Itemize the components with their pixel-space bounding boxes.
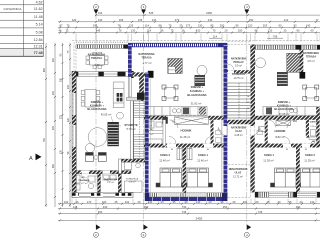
svg-text:KUHINJA +: KUHINJA + — [190, 89, 205, 93]
svg-text:100: 100 — [102, 200, 107, 204]
svg-text:4.62: 4.62 — [36, 0, 43, 4]
svg-text:HODNIK: HODNIK — [274, 129, 285, 133]
svg-text:25: 25 — [284, 29, 287, 33]
svg-text:DNEVNI +: DNEVNI + — [191, 85, 204, 89]
svg-text:20: 20 — [256, 200, 259, 204]
svg-text:77: 77 — [316, 18, 319, 22]
svg-text:250: 250 — [238, 29, 243, 33]
svg-text:250: 250 — [52, 90, 55, 95]
svg-text:4.5 m²: 4.5 m² — [307, 59, 315, 63]
svg-text:27.95 m²: 27.95 m² — [279, 112, 290, 116]
svg-text:GOVAONICA: GOVAONICA — [4, 7, 22, 11]
svg-text:12.40 m²: 12.40 m² — [197, 159, 208, 163]
svg-text:TERASA: TERASA — [141, 57, 151, 60]
svg-text:KUPAONICA: KUPAONICA — [126, 178, 139, 181]
svg-text:96: 96 — [255, 29, 258, 33]
svg-text:80: 80 — [305, 149, 307, 151]
svg-text:340: 340 — [103, 205, 108, 209]
svg-text:SOBA 2: SOBA 2 — [305, 153, 315, 157]
svg-text:225: 225 — [60, 114, 63, 119]
svg-text:12.72 m²: 12.72 m² — [233, 176, 243, 179]
svg-text:11.48: 11.48 — [34, 15, 43, 19]
svg-text:BLAGOVAONA: BLAGOVAONA — [187, 93, 206, 97]
svg-text:745: 745 — [258, 210, 263, 214]
svg-text:148: 148 — [73, 205, 78, 209]
svg-text:90: 90 — [297, 29, 300, 33]
svg-text:2455: 2455 — [196, 216, 203, 220]
svg-text:WC +: WC + — [81, 177, 87, 179]
svg-text:90: 90 — [172, 122, 174, 124]
svg-text:135: 135 — [138, 18, 143, 22]
svg-text:25: 25 — [180, 24, 183, 28]
svg-text:12.31: 12.31 — [34, 45, 43, 49]
svg-text:125: 125 — [129, 24, 134, 28]
svg-text:11.35 m²: 11.35 m² — [263, 159, 274, 163]
svg-text:273: 273 — [186, 24, 191, 28]
svg-text:3.98 m²: 3.98 m² — [128, 181, 135, 184]
svg-text:203: 203 — [263, 24, 268, 28]
svg-text:460: 460 — [296, 205, 301, 209]
svg-text:730: 730 — [182, 205, 187, 209]
svg-text:3.21 m²: 3.21 m² — [310, 125, 317, 128]
svg-text:75: 75 — [169, 24, 172, 28]
svg-text:750: 750 — [98, 210, 103, 214]
svg-text:80: 80 — [286, 149, 288, 151]
svg-text:TERASA: TERASA — [306, 56, 316, 59]
svg-text:96: 96 — [161, 29, 164, 33]
svg-text:45: 45 — [267, 200, 270, 204]
svg-text:140: 140 — [98, 18, 103, 22]
svg-text:9.88 m²: 9.88 m² — [94, 63, 103, 67]
svg-text:273: 273 — [175, 18, 180, 22]
svg-text:114: 114 — [145, 24, 150, 28]
svg-text:NATKRIVENA: NATKRIVENA — [88, 53, 105, 57]
svg-text:11.62: 11.62 — [34, 7, 43, 11]
svg-text:130: 130 — [131, 29, 136, 33]
svg-text:ULAZ: ULAZ — [235, 130, 242, 133]
svg-text:5.9 m²: 5.9 m² — [235, 65, 242, 68]
svg-text:87: 87 — [60, 24, 63, 28]
svg-text:20: 20 — [225, 29, 228, 33]
svg-text:DNEVNI +: DNEVNI + — [91, 100, 104, 104]
svg-text:KUHINJA +: KUHINJA + — [90, 104, 105, 108]
svg-text:8.82 m²: 8.82 m² — [275, 135, 284, 139]
svg-text:46: 46 — [59, 29, 62, 33]
svg-text:260: 260 — [243, 200, 248, 204]
svg-text:5.70 m²: 5.70 m² — [126, 127, 135, 131]
svg-text:45: 45 — [115, 200, 118, 204]
svg-text:5.14: 5.14 — [36, 23, 43, 27]
svg-text:KUPAON.: KUPAON. — [310, 121, 319, 124]
svg-text:20: 20 — [300, 200, 303, 204]
svg-text:190: 190 — [60, 77, 63, 82]
svg-text:76: 76 — [119, 29, 122, 33]
svg-text:250: 250 — [223, 205, 228, 209]
svg-text:DNEVNI +: DNEVNI + — [278, 100, 291, 104]
svg-text:HODNIK: HODNIK — [180, 129, 191, 133]
svg-text:245: 245 — [93, 24, 98, 28]
svg-text:102: 102 — [64, 200, 69, 204]
svg-text:410: 410 — [284, 18, 289, 22]
svg-text:130: 130 — [60, 149, 63, 154]
svg-text:20: 20 — [138, 200, 141, 204]
svg-text:170: 170 — [87, 200, 92, 204]
svg-text:SOBA 1: SOBA 1 — [198, 153, 208, 157]
svg-text:85: 85 — [211, 24, 214, 28]
svg-text:120: 120 — [67, 117, 70, 122]
svg-text:250: 250 — [220, 24, 225, 28]
svg-text:43.95 m²: 43.95 m² — [101, 113, 112, 117]
svg-text:75: 75 — [67, 24, 70, 28]
svg-text:440: 440 — [208, 18, 213, 22]
svg-text:535: 535 — [149, 11, 154, 15]
svg-text:4.28 m²: 4.28 m² — [234, 134, 243, 137]
svg-text:708: 708 — [273, 34, 278, 38]
svg-text:5.08: 5.08 — [36, 30, 43, 34]
svg-text:120: 120 — [72, 18, 77, 22]
svg-text:75: 75 — [171, 29, 174, 33]
svg-text:10.75 m²: 10.75 m² — [234, 77, 244, 80]
svg-text:225: 225 — [67, 84, 70, 89]
svg-text:BLAGOVAONA: BLAGOVAONA — [274, 107, 293, 111]
svg-text:12.84: 12.84 — [34, 38, 43, 42]
svg-text:95: 95 — [236, 24, 239, 28]
svg-text:114: 114 — [213, 34, 218, 38]
svg-text:11.48 m²: 11.48 m² — [180, 135, 191, 139]
svg-text:80: 80 — [207, 149, 209, 151]
svg-text:4.77 m²: 4.77 m² — [142, 61, 151, 65]
svg-text:760: 760 — [43, 137, 46, 142]
svg-text:320: 320 — [52, 57, 55, 62]
svg-text:360: 360 — [52, 163, 55, 168]
svg-text:93: 93 — [294, 24, 297, 28]
svg-text:GARDEROBA: GARDEROBA — [104, 178, 118, 181]
svg-text:75: 75 — [66, 29, 69, 33]
svg-text:410: 410 — [196, 29, 201, 33]
svg-text:77.48: 77.48 — [34, 51, 43, 55]
svg-text:305: 305 — [52, 125, 55, 130]
svg-text:735: 735 — [182, 210, 187, 214]
svg-text:75: 75 — [213, 29, 216, 33]
svg-text:250: 250 — [249, 18, 254, 22]
svg-text:78: 78 — [118, 24, 121, 28]
svg-text:KUHINJA +: KUHINJA + — [277, 104, 292, 108]
svg-text:PRAONICA: PRAONICA — [78, 179, 90, 182]
svg-text:120: 120 — [268, 29, 273, 33]
svg-text:147: 147 — [152, 18, 157, 22]
svg-text:130: 130 — [198, 24, 203, 28]
svg-text:BLAGOVAONA: BLAGOVAONA — [87, 107, 106, 111]
svg-text:140: 140 — [306, 24, 311, 28]
svg-text:885: 885 — [43, 67, 46, 72]
svg-text:445: 445 — [96, 29, 101, 33]
svg-text:3.77 m²: 3.77 m² — [81, 182, 88, 185]
svg-text:12.40 m²: 12.40 m² — [159, 159, 170, 163]
svg-text:ULAZ: ULAZ — [235, 172, 242, 175]
svg-text:KUPAONICA: KUPAONICA — [150, 118, 153, 130]
svg-text:11.35 m²: 11.35 m² — [304, 159, 315, 163]
svg-text:134: 134 — [98, 11, 103, 15]
svg-text:102: 102 — [125, 200, 130, 204]
svg-text:95: 95 — [289, 200, 292, 204]
svg-text:3.17 m²: 3.17 m² — [107, 181, 114, 184]
svg-text:120: 120 — [248, 24, 253, 28]
svg-text:26: 26 — [182, 29, 185, 33]
svg-text:98: 98 — [159, 24, 162, 28]
svg-text:20: 20 — [233, 200, 236, 204]
svg-text:31.82 m²: 31.82 m² — [191, 102, 202, 106]
svg-text:2350: 2350 — [206, 11, 212, 15]
svg-text:165: 165 — [119, 18, 124, 22]
svg-text:90: 90 — [279, 24, 282, 28]
svg-text:20: 20 — [278, 200, 281, 204]
svg-text:A: A — [29, 156, 33, 162]
svg-text:114: 114 — [147, 29, 152, 33]
svg-text:140: 140 — [310, 200, 315, 204]
svg-text:TERASA: TERASA — [91, 56, 102, 60]
svg-text:80: 80 — [171, 149, 173, 151]
svg-text:60: 60 — [311, 29, 314, 33]
svg-text:SOBA 1: SOBA 1 — [264, 153, 274, 157]
svg-text:SOBA 2: SOBA 2 — [160, 153, 170, 157]
svg-text:399: 399 — [144, 205, 149, 209]
